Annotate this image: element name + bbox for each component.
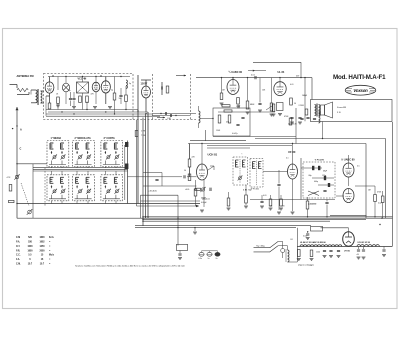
svg-text:Taratura: modifica con l'istru: Taratura: modifica con l'istruzione 7500… xyxy=(75,264,186,267)
output transformer xyxy=(315,104,320,117)
FM ground 2 xyxy=(72,107,76,109)
cap C4 xyxy=(119,88,122,104)
FM inner dots xyxy=(65,76,66,77)
bus junction dots xyxy=(142,216,143,217)
B+ line xyxy=(255,138,386,140)
V1 wires xyxy=(49,77,51,82)
avc resistor top xyxy=(224,110,232,112)
svg-text:3p: 3p xyxy=(129,83,131,85)
plate parallel b xyxy=(207,147,250,149)
svg-text:0.01: 0.01 xyxy=(290,84,294,86)
svg-text:400p: 400p xyxy=(314,181,318,183)
cap C5 xyxy=(161,82,162,95)
UF80 bottom wire xyxy=(292,179,294,211)
svg-text:12AT7: 12AT7 xyxy=(141,83,148,86)
tube EM84 eye xyxy=(343,189,354,203)
svg-text:UF 80: UF 80 xyxy=(288,150,296,154)
V4 top wire xyxy=(232,78,234,80)
bus line y225 xyxy=(135,225,311,227)
svg-text:75µ 1 Mog: 75µ 1 Mog xyxy=(256,246,265,248)
svg-text:P.R.: P.R. xyxy=(16,250,20,252)
resistor R3b xyxy=(125,95,128,102)
UCH81 bypass cap xyxy=(202,180,205,207)
cap C2 xyxy=(69,92,72,106)
UCH81 diode arrow xyxy=(208,166,214,170)
wire UF80 grid xyxy=(263,171,288,173)
bus stub h201 xyxy=(141,200,201,202)
heater resistor 1 xyxy=(297,250,301,261)
FM ground 3 xyxy=(93,107,97,109)
eye wires xyxy=(336,195,344,197)
FM bottom bus 3 xyxy=(46,113,152,115)
tube UCH81 xyxy=(197,164,208,180)
avc resistor 2 xyxy=(228,115,231,123)
svg-text:ANTENNA FM: ANTENNA FM xyxy=(17,74,34,78)
audio B+ wire xyxy=(248,70,266,72)
cap C3 xyxy=(72,92,75,106)
svg-text:3 Ω: 3 Ω xyxy=(337,112,341,114)
svg-text:UY 85: UY 85 xyxy=(344,251,351,253)
bus stub h195 xyxy=(141,194,179,196)
resistor 470K xyxy=(284,116,292,125)
band coil can row2-1 xyxy=(47,175,69,201)
svg-text:¼ UABC 80: ¼ UABC 80 xyxy=(229,70,243,74)
svg-text:Kc/s: Kc/s xyxy=(49,237,55,239)
UCH81 grid cap xyxy=(184,175,185,178)
V3 wires xyxy=(145,80,147,86)
filter box xyxy=(77,82,89,93)
preamp tube V4 xyxy=(227,80,239,95)
svg-text:1600: 1600 xyxy=(27,250,33,252)
svg-text:50: 50 xyxy=(184,170,186,172)
IF can 4a FI xyxy=(250,159,263,188)
UF80 plate wire xyxy=(292,144,294,165)
UCH81 det vertical xyxy=(205,130,207,141)
band right vertical 2 xyxy=(124,145,126,200)
svg-text:1600: 1600 xyxy=(39,237,45,239)
svg-text:2000: 2000 xyxy=(39,250,45,252)
bus tick xyxy=(193,227,197,234)
FM tube V2a xyxy=(92,82,100,92)
V5 screen resistor xyxy=(290,98,293,105)
svg-text:0.02: 0.02 xyxy=(313,193,317,195)
speaker box xyxy=(311,100,393,122)
svg-text:50: 50 xyxy=(294,103,296,105)
right end cap xyxy=(382,247,386,257)
FM right comps xyxy=(160,112,176,117)
V5 cathode resistor xyxy=(272,104,276,116)
FM ground 4 xyxy=(108,107,112,109)
plate supply line b xyxy=(190,140,246,142)
right resistor 2 xyxy=(379,191,384,225)
svg-text:680K: 680K xyxy=(250,104,255,106)
bus resistor 2 xyxy=(306,197,309,217)
vertical x296 xyxy=(295,108,297,144)
AM box bottom xyxy=(330,214,367,216)
junction dots FM xyxy=(100,75,101,76)
loop wire xyxy=(143,172,162,174)
UF80 screen cap xyxy=(277,170,280,210)
preamp plate wire xyxy=(196,77,312,79)
right wire h xyxy=(355,185,375,187)
plate parallel a xyxy=(207,145,292,147)
svg-text:+50: +50 xyxy=(356,254,359,256)
heater coils group 2 xyxy=(357,245,364,247)
svg-text:2ª MODULATA: 2ª MODULATA xyxy=(75,136,91,140)
audio B+ drop xyxy=(311,78,313,100)
V5 top wire xyxy=(279,78,281,82)
rectifier tube UY85 xyxy=(343,232,355,246)
FM output arrow xyxy=(176,75,186,77)
svg-text:O.T.: O.T. xyxy=(16,246,21,248)
bottom comps row cap 1 xyxy=(290,117,294,124)
svg-text:T FM: T FM xyxy=(141,135,146,137)
UCH81 plate wire xyxy=(201,144,203,165)
svg-text:4ª FI 465: 4ª FI 465 xyxy=(251,188,260,191)
svg-text:1 FR: 1 FR xyxy=(141,131,146,133)
svg-text:1a: 1a xyxy=(208,258,210,260)
heater chain line xyxy=(297,246,392,248)
heater resistor 2 xyxy=(310,250,314,261)
svg-text:1250: 1250 xyxy=(39,246,45,248)
bus vertical b xyxy=(145,114,147,218)
svg-text:0.02µF: 0.02µF xyxy=(201,202,208,204)
FM box dashed bottom extension xyxy=(133,119,196,121)
heater cap 1 xyxy=(323,250,327,257)
tube UF80 xyxy=(288,164,298,179)
above-box cap xyxy=(238,105,239,108)
heavy vertical x138 xyxy=(137,75,139,204)
tuning trimmer xyxy=(14,174,19,179)
bus vertical d xyxy=(140,195,142,218)
phono jack box xyxy=(177,244,188,250)
coupling cap C10 xyxy=(251,74,256,79)
phono wire xyxy=(177,195,179,245)
svg-text:10.7: 10.7 xyxy=(28,263,33,265)
svg-text:P.A.: P.A. xyxy=(16,241,20,244)
svg-text:1602: 1602 xyxy=(39,242,45,244)
autotransformer xyxy=(286,249,297,262)
AVC line left xyxy=(17,163,47,165)
FM bottom bus 4 xyxy=(46,115,160,117)
svg-text:2.2KΩ: 2.2KΩ xyxy=(299,105,305,107)
svg-text:Mod. HAITI-M.A-F1: Mod. HAITI-M.A-F1 xyxy=(333,74,386,81)
svg-text:0.02: 0.02 xyxy=(378,203,382,205)
electrolytic 2 xyxy=(362,247,366,260)
FM bottom bus 1 xyxy=(46,109,138,111)
above-box resistor xyxy=(222,105,230,107)
FM bottom bus 2 xyxy=(48,111,148,113)
V5 cathode box xyxy=(277,103,284,116)
resistor R2a xyxy=(79,96,82,103)
lower trimmer xyxy=(27,209,33,215)
svg-text:B1: B1 xyxy=(291,239,293,241)
pilot lamp 1 xyxy=(199,252,204,256)
svg-text:UL 84 UY 85 UABC 80 EM 84: UL 84 UY 85 UABC 80 EM 84 xyxy=(300,241,326,244)
B+ drop right xyxy=(385,139,387,219)
oscillator resistor xyxy=(245,185,248,205)
bus resistor 1 xyxy=(227,192,230,206)
svg-text:68p: 68p xyxy=(309,175,312,177)
FM box top wire xyxy=(48,76,130,78)
FM dashed vertical right xyxy=(190,74,192,120)
B+ top wire xyxy=(253,61,301,63)
wire coil to box xyxy=(200,118,213,120)
switch blade 2 xyxy=(270,246,278,252)
bus vertical a xyxy=(142,118,144,226)
svg-text:100: 100 xyxy=(119,98,122,100)
speaker box drop xyxy=(322,122,324,139)
band coil can row1-3 xyxy=(101,141,123,167)
svg-text:0.01: 0.01 xyxy=(263,195,267,197)
left dashed switch line xyxy=(44,168,46,207)
preamp ground line xyxy=(218,111,275,113)
bus vertical c xyxy=(136,120,138,206)
FM right bus b xyxy=(152,115,190,117)
bus resistor 3 xyxy=(269,195,273,210)
fuse xyxy=(281,249,285,259)
FM IF arrow xyxy=(157,117,171,120)
mixer circle xyxy=(62,83,69,92)
audio B+ arrow xyxy=(253,70,255,72)
bus stub h206 xyxy=(137,205,197,207)
pilot lamp 3 xyxy=(215,252,220,256)
bus line y228 xyxy=(135,227,296,229)
antenna resistor xyxy=(17,88,28,91)
tube UABC80 xyxy=(343,163,354,177)
V4 right resistor xyxy=(246,77,250,114)
UCH81 left resistor 2 xyxy=(188,174,191,181)
vertical resistor x136 xyxy=(135,131,138,137)
FM ground 1 xyxy=(56,105,60,107)
svg-text:125p: 125p xyxy=(322,175,326,177)
svg-text:C.M.: C.M. xyxy=(16,263,21,265)
phono cap xyxy=(178,251,182,260)
antenna down arrow xyxy=(12,107,19,129)
band coil can row2-3 xyxy=(101,175,123,201)
avc resistor 1 xyxy=(218,115,221,123)
left small resistor xyxy=(9,200,15,202)
band row2 top stubs xyxy=(51,171,53,175)
AVC line mid xyxy=(128,176,183,178)
resistor R2b xyxy=(86,96,89,103)
left resistor 4.7K xyxy=(7,177,12,191)
ratio det can xyxy=(301,158,335,200)
svg-text:0.047µ: 0.047µ xyxy=(232,133,238,135)
comp coil 318 xyxy=(319,111,321,123)
V4 right resistor 2 xyxy=(270,78,274,116)
FM tube V2 xyxy=(101,81,110,93)
switch blade 1 xyxy=(270,242,278,248)
right margin line xyxy=(392,122,394,246)
resistor R5 xyxy=(166,86,169,93)
V2 coil xyxy=(126,80,127,88)
electrolytic 1 xyxy=(356,247,361,260)
svg-text:A.05 4700: A.05 4700 xyxy=(308,203,316,206)
FM right bus a xyxy=(152,113,196,115)
svg-text:1000: 1000 xyxy=(27,246,33,248)
bus line y221 xyxy=(143,220,330,222)
svg-text:2p: 2p xyxy=(111,90,113,92)
band right vertical xyxy=(127,141,129,204)
svg-text:S-xxx-FR: S-xxx-FR xyxy=(337,107,347,109)
bottom comps row cap 2 xyxy=(298,117,302,124)
Voxson logo xyxy=(345,85,376,95)
FM tuner dashed divider xyxy=(152,74,154,120)
output tube V5 xyxy=(274,82,286,96)
svg-text:F.A.: F.A. xyxy=(16,258,20,261)
band bus line b xyxy=(33,168,128,170)
V1 plate resistor xyxy=(57,97,60,104)
right resistor 1 xyxy=(374,186,377,217)
ground bus 2 xyxy=(17,217,393,219)
bus resistor 4 xyxy=(279,195,283,210)
band box stubs xyxy=(51,201,53,204)
svg-text:T. FI 4.7K: T. FI 4.7K xyxy=(315,158,325,161)
svg-text:FM: FM xyxy=(168,118,171,120)
right loop blob 1 xyxy=(125,142,128,147)
under-tube resistor h xyxy=(195,188,201,190)
UCH81 cathode resistor xyxy=(194,180,197,206)
under-tube cap xyxy=(210,188,211,191)
svg-text:6.3a: 6.3a xyxy=(199,258,202,260)
avc network box xyxy=(213,108,250,136)
svg-text:VCC 4N: VCC 4N xyxy=(78,77,87,80)
left vertical x33 xyxy=(32,164,34,218)
svg-text:0.5: 0.5 xyxy=(357,166,360,168)
heater coils group 1 xyxy=(300,245,307,247)
gang dashed diagonal xyxy=(21,183,29,206)
mains switch line 1 xyxy=(254,247,271,249)
AM bottom bus xyxy=(17,203,200,205)
svg-text:Mc/s: Mc/s xyxy=(49,255,55,257)
grid line xyxy=(143,185,197,187)
svg-text:C.M: C.M xyxy=(16,237,20,239)
alignment table xyxy=(16,237,55,265)
band coil can row1-2 xyxy=(73,141,95,167)
bus gnd marks xyxy=(200,210,204,212)
heavy vertical x148 xyxy=(147,112,149,218)
svg-text:1200: 1200 xyxy=(316,252,320,254)
svg-text:C.C.: C.C. xyxy=(16,255,21,257)
UCH81 screen resistor xyxy=(188,144,191,177)
band coil can row2-2 xyxy=(73,175,95,201)
svg-text:2a: 2a xyxy=(216,258,218,260)
comp resistor 300s xyxy=(305,109,308,115)
svg-text:L.M. A.05: L.M. A.05 xyxy=(148,190,158,193)
left bus dots xyxy=(16,163,17,164)
FM tube V3 12AT7 xyxy=(142,86,151,98)
pilot lamp 2 xyxy=(207,252,212,256)
band coil can row1-1 xyxy=(47,141,69,167)
svg-text:UCH 81 UF 80: UCH 81 UF 80 xyxy=(358,242,370,244)
bus cap 1 xyxy=(260,195,263,203)
FM tuner dashed box xyxy=(44,74,134,120)
speaker xyxy=(321,102,333,118)
V4 grid resistor xyxy=(220,77,224,105)
avc bottom wire xyxy=(213,136,296,138)
right loop blob 2 xyxy=(125,164,128,170)
power cap small xyxy=(306,232,310,240)
ratio det bottom wire xyxy=(250,199,335,201)
V1 input resistor xyxy=(48,103,51,109)
band bus line a xyxy=(33,167,128,169)
switch wires xyxy=(278,241,283,243)
vertical x305 xyxy=(304,78,306,122)
plate supply line xyxy=(188,143,366,145)
left vertical bus xyxy=(16,107,18,218)
svg-text:3ª CORTA: 3ª CORTA xyxy=(104,136,115,140)
svg-text:A.05: A.05 xyxy=(186,188,190,191)
bottom comps row cap 3 xyxy=(288,117,310,125)
svg-text:10.7: 10.7 xyxy=(40,263,45,265)
heater cap 3 xyxy=(337,250,341,257)
antenna input wires xyxy=(10,84,18,86)
AM section right edge xyxy=(365,144,367,219)
under-tube trimmer xyxy=(200,187,205,192)
V5 feedback arrow xyxy=(266,106,272,110)
band row1 stubs xyxy=(51,167,53,168)
svg-text:470K: 470K xyxy=(284,116,289,118)
svg-text:0.047: 0.047 xyxy=(303,236,308,238)
svg-text:UL 84: UL 84 xyxy=(278,71,285,74)
svg-text:A: A xyxy=(20,129,22,132)
svg-text:C: C xyxy=(20,148,22,151)
bus line y219 xyxy=(143,219,366,221)
V4 under resistor xyxy=(236,98,241,108)
svg-text:0.1: 0.1 xyxy=(286,158,289,160)
heater cap 2 xyxy=(329,250,333,257)
ground bus 1 xyxy=(143,216,393,218)
power dot xyxy=(307,231,308,232)
rectifier wire top xyxy=(321,227,349,229)
svg-text:220: 220 xyxy=(282,206,285,208)
V2 grid resistor xyxy=(113,93,116,100)
svg-text:Voxson: Voxson xyxy=(353,88,368,93)
FM tube V1 xyxy=(45,82,54,93)
IF coupling coil xyxy=(199,106,201,128)
power vertical xyxy=(296,228,298,262)
antenna coupling coil xyxy=(31,89,44,105)
loop cap xyxy=(155,179,158,180)
svg-text:1ª MEDIA: 1ª MEDIA xyxy=(51,136,62,140)
oscillator can xyxy=(233,157,248,185)
FM stub wires xyxy=(57,77,59,91)
svg-text:UCH 81: UCH 81 xyxy=(208,153,218,157)
svg-text:8p: 8p xyxy=(69,90,71,92)
avc cap 2 xyxy=(241,117,244,118)
mains switch line 2 xyxy=(254,251,271,253)
lamp feed wire xyxy=(201,251,203,253)
avc cap 1 xyxy=(236,124,239,125)
UABC80 wires xyxy=(348,155,350,163)
svg-text:0.01: 0.01 xyxy=(206,199,210,201)
comp caps right top xyxy=(300,118,303,119)
dropper resistor xyxy=(311,226,323,231)
V4 right cap xyxy=(258,78,262,112)
svg-text:⅓ UABC 80: ⅓ UABC 80 xyxy=(341,158,355,161)
bus cap 2 xyxy=(325,200,328,217)
V2 wires xyxy=(105,77,107,81)
band bus line c xyxy=(33,170,128,172)
svg-text:doppio voltaggio: doppio voltaggio xyxy=(298,264,315,267)
